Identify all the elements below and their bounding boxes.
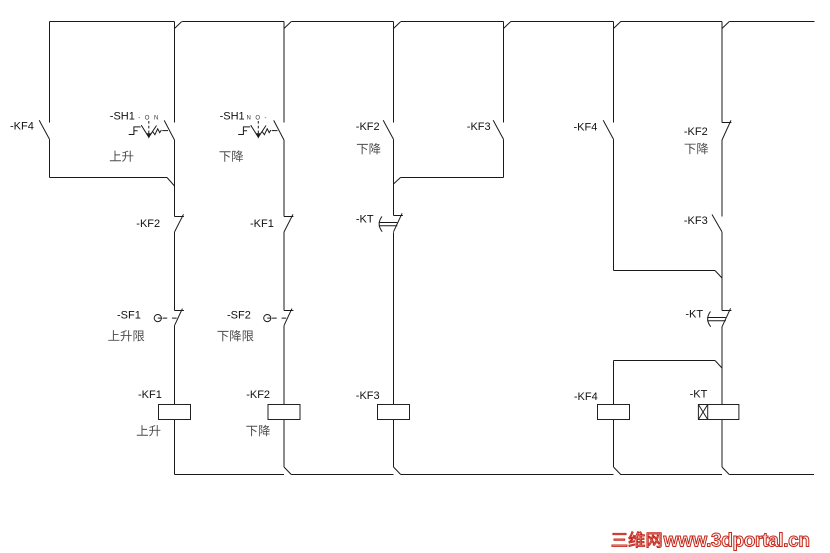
wire: rung 2 vertical (gray): [283, 22, 285, 468]
contact -KF2 NO rung3: [356, 120, 394, 139]
svg-text:-KF3: -KF3: [467, 121, 491, 133]
coil -KF4: [574, 391, 630, 420]
wire: top supply bus with branch jogs: [50, 22, 815, 29]
svg-text:-KF1: -KF1: [138, 389, 162, 401]
contact -KF2 NC rung1: [136, 214, 184, 232]
coil -KT (off-delay timer): [690, 389, 739, 420]
svg-text:-KF2: -KF2: [246, 389, 270, 401]
label lower (rung2): [219, 150, 243, 161]
pushbutton -SH1 (lower) with label: [238, 115, 284, 140]
contact -KF2 NC rung6: [684, 120, 732, 140]
wire: rung 1 vertical: [174, 22, 176, 475]
contact -KF3 NO rung4: [467, 120, 504, 139]
label raise-limit: [108, 330, 144, 341]
coil -KF3: [356, 390, 410, 420]
svg-text:-SH1: -SH1: [110, 111, 135, 123]
svg-text:-KF4: -KF4: [574, 391, 598, 403]
label lower (coil KF2): [246, 425, 270, 436]
svg-text:-KT: -KT: [685, 308, 703, 320]
svg-text:-KF3: -KF3: [356, 390, 380, 402]
watermark 3dportal: [612, 530, 810, 551]
svg-text:-KF1: -KF1: [250, 218, 274, 230]
svg-text:-KF4: -KF4: [574, 122, 598, 134]
timed contact -KT (rung6): [685, 308, 731, 327]
label lower (rung3): [357, 143, 381, 154]
wire: KT/KF4 branch split: [614, 361, 723, 369]
wire: seal loop bottom: [50, 178, 175, 187]
svg-text:-KF4: -KF4: [10, 121, 34, 133]
wire: rung 5 vertical: [613, 22, 615, 468]
svg-text:-SH1: -SH1: [220, 111, 245, 123]
svg-text:-KT: -KT: [690, 389, 708, 401]
contact -KF4 NO (seal-in, left): [10, 120, 50, 139]
label raise (rung1): [110, 151, 134, 162]
wire: rung 4 vertical: [503, 22, 505, 178]
label raise (coil KF1): [137, 425, 161, 436]
svg-text:-SF2: -SF2: [227, 309, 251, 321]
svg-text:www.3dportal.cn: www.3dportal.cn: [663, 530, 811, 551]
wire: bottom return bus with branch jogs: [175, 467, 815, 475]
label lower (rung6): [685, 143, 709, 154]
svg-text:-SF1: -SF1: [117, 309, 141, 321]
pushbutton -SH1 (raise) with label: [129, 115, 175, 140]
svg-text:-KT: -KT: [356, 214, 374, 226]
coil -KF2: [246, 389, 300, 420]
svg-text:-KF2: -KF2: [136, 218, 160, 230]
svg-text:-KF2: -KF2: [356, 121, 380, 133]
timed contact -KT (rung3): [356, 213, 403, 232]
contact -KF1 NC rung2: [250, 214, 293, 232]
svg-text:-KF3: -KF3: [684, 215, 708, 227]
wire: rung 6 vertical (gray): [721, 22, 723, 468]
wire: left seal branch vertical: [49, 22, 51, 178]
wire: rung3-rung4 join: [394, 178, 504, 185]
contact -KF4 NO rung5: [574, 120, 614, 139]
svg-text:-KF2: -KF2: [684, 126, 708, 138]
wire: rung 3 vertical: [393, 22, 395, 468]
label lower-limit: [217, 330, 253, 341]
coil -KF1: [138, 389, 191, 420]
limit switch -SF1 NC: [117, 309, 184, 326]
contact -KF3 NO rung6: [684, 215, 722, 232]
wire: rung5-rung6 join: [614, 271, 723, 279]
limit switch -SF2 NC: [227, 309, 293, 326]
